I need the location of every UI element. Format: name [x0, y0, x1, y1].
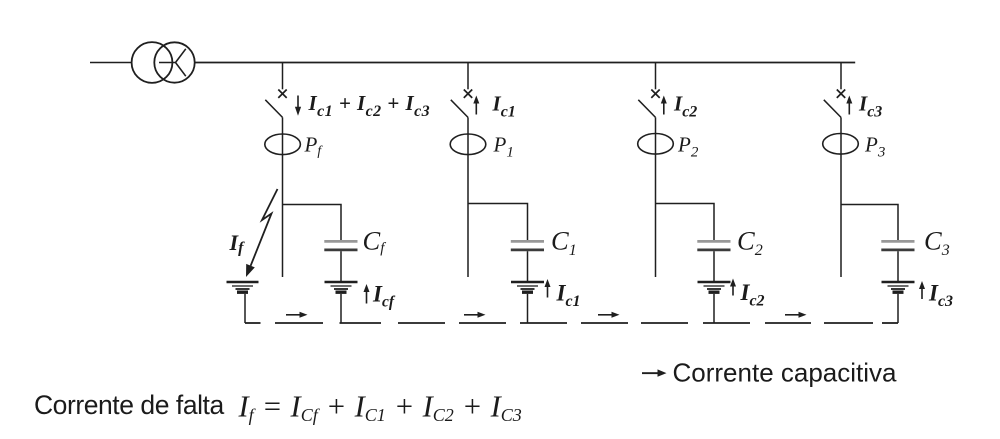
- ground (below C1): [511, 282, 544, 292]
- svg-text:Ic1: Ic1: [556, 281, 581, 311]
- svg-text:If = ICf + IC1 + IC2 + IC3: If = ICf + IC1 + IC2 + IC3: [238, 390, 522, 426]
- wire: Cf to ground: [340, 251, 342, 281]
- wire: rail segment 12: [882, 322, 898, 324]
- wire: C3 to ground: [897, 251, 899, 281]
- CT P3: [823, 134, 859, 155]
- wire: feeder 1 drop from bus: [282, 63, 284, 90]
- capacitor C1 bottom plate: [511, 249, 544, 252]
- wire: rail segment 2: [275, 322, 323, 324]
- svg-text:Ic2: Ic2: [740, 280, 765, 310]
- wire: rail segment 6: [520, 322, 567, 324]
- wire: feeder 4 vertical: [840, 117, 842, 277]
- wire: rail segment 1: [245, 322, 261, 324]
- CT Pf: [265, 134, 301, 155]
- current arrow up Icf: [364, 284, 370, 304]
- current flow arrow 2: [464, 312, 486, 318]
- wire: fault ground lead to return rail: [244, 294, 246, 323]
- current flow arrow 4: [785, 312, 807, 318]
- wire: rail segment 8: [641, 322, 688, 324]
- return rail (dashed capacitive current path): [245, 322, 898, 324]
- current arrow up Ic2 (breaker): [661, 96, 667, 115]
- svg-text:If: If: [229, 230, 246, 257]
- capacitor Cf top plate: [324, 240, 357, 243]
- wire: feeder 4 drop from bus: [840, 63, 842, 90]
- current arrow up Ic1 (breaker): [473, 96, 479, 115]
- capacitor C2 top plate: [697, 240, 730, 243]
- legend arrow: [642, 369, 667, 376]
- svg-text:Ic2: Ic2: [673, 92, 697, 121]
- capacitor Cf bottom plate: [324, 249, 357, 252]
- fault arrowhead: [246, 264, 255, 277]
- breaker feeder 1 (x mark): [278, 90, 286, 98]
- svg-text:Corrente capacitiva: Corrente capacitiva: [673, 358, 898, 388]
- current arrow down (fault current into feeder 1): [295, 96, 301, 116]
- current arrow up Ic3 (breaker): [846, 96, 852, 115]
- svg-text:Corrente de falta: Corrente de falta: [34, 390, 224, 420]
- current arrow up Ic3 (ground): [919, 281, 925, 299]
- wire: ground lead to return rail: [340, 294, 342, 323]
- breaker feeder 2 blade: [451, 100, 468, 118]
- wire: rail segment 7: [581, 322, 628, 324]
- wire: rail segment 5: [459, 322, 506, 324]
- wire: C2 to ground: [713, 251, 715, 281]
- current arrow up Ic2 (ground): [730, 279, 736, 296]
- CT P2: [638, 134, 674, 155]
- wire: branch feeder4 to capacitor C3: [841, 205, 898, 241]
- fault lightning bolt: [251, 189, 278, 266]
- current arrow up Ic1 (ground): [545, 279, 551, 298]
- svg-text:Ic1: Ic1: [492, 92, 516, 121]
- breaker feeder 3 blade: [638, 100, 655, 118]
- wire: rail segment 4: [398, 322, 445, 324]
- ground (below C2): [698, 282, 731, 292]
- wire: ground lead to return rail: [527, 294, 529, 323]
- svg-text:Ic3: Ic3: [928, 281, 953, 311]
- wire: branch feeder1 to capacitor Cf: [283, 205, 342, 241]
- transformer T1 wye symbol: [159, 49, 186, 76]
- wire: feeder 3 drop from bus: [655, 63, 657, 90]
- breaker feeder 2 (x mark): [464, 90, 472, 98]
- current flow arrow 3: [598, 312, 620, 318]
- svg-text:C1: C1: [551, 226, 577, 260]
- wire: feeder 2 vertical: [467, 117, 469, 277]
- breaker feeder 1 blade: [265, 100, 282, 118]
- wire: branch feeder3 to capacitor C2: [656, 204, 715, 241]
- wire: rail segment 11: [824, 322, 873, 324]
- svg-text:C2: C2: [737, 226, 763, 260]
- capacitor C1 top plate: [511, 240, 544, 243]
- svg-text:P3: P3: [864, 133, 885, 161]
- capacitor C3 top plate: [881, 240, 914, 243]
- transformer T1 secondary winding: [154, 42, 194, 82]
- svg-text:P1: P1: [493, 133, 514, 161]
- breaker feeder 3 (x mark): [651, 90, 659, 98]
- breaker feeder 4 (x mark): [837, 90, 845, 98]
- svg-text:C3: C3: [924, 226, 950, 260]
- svg-text:Pf: Pf: [304, 133, 324, 159]
- wire: rail segment 10: [765, 322, 811, 324]
- wire: main bus: [195, 62, 856, 64]
- wire: ground lead to return rail: [897, 294, 899, 323]
- svg-text:Ic1 + Ic2 + Ic3: Ic1 + Ic2 + Ic3: [308, 91, 431, 120]
- wire: feeder 3 vertical: [655, 117, 657, 277]
- wire: rail segment 3: [340, 322, 382, 324]
- breaker feeder 4 blade: [824, 100, 841, 118]
- svg-text:Ic3: Ic3: [858, 92, 882, 121]
- wire: feeder 1 vertical: [282, 117, 284, 277]
- capacitor C2 bottom plate: [697, 249, 730, 252]
- ground (below Cf): [325, 282, 358, 292]
- ground (fault): [227, 282, 259, 292]
- wire: C1 to ground: [527, 251, 529, 281]
- ground (below C3): [882, 282, 915, 292]
- wire: feeder 2 drop from bus: [467, 63, 469, 90]
- transformer T1 primary winding: [132, 42, 173, 83]
- wire: rail segment 9: [703, 322, 750, 324]
- wire: branch feeder2 to capacitor C1: [468, 204, 528, 241]
- svg-text:Icf: Icf: [372, 282, 396, 311]
- svg-text:Cf: Cf: [363, 226, 387, 257]
- wire: source lead to transformer: [90, 62, 132, 64]
- CT P1: [450, 134, 486, 155]
- svg-text:P2: P2: [677, 133, 699, 161]
- capacitor C3 bottom plate: [881, 249, 914, 252]
- current flow arrow 1: [286, 312, 308, 318]
- wire: ground lead to return rail: [713, 294, 715, 323]
